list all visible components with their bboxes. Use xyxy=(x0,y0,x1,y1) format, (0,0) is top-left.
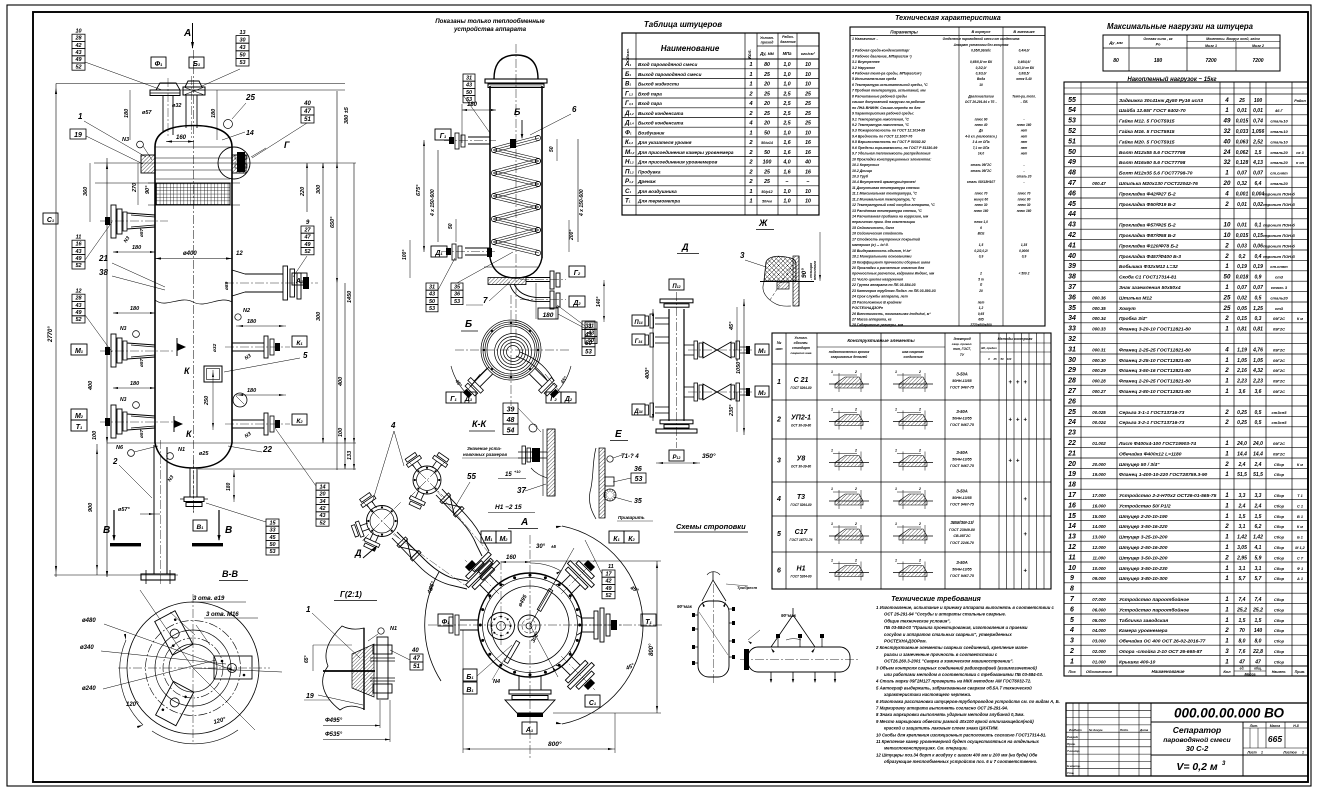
svg-text:2,4: 2,4 xyxy=(1254,462,1262,468)
svg-text:30°: 30° xyxy=(536,544,546,550)
svg-text:Д1: Д1 xyxy=(464,396,473,403)
svg-text:48: 48 xyxy=(506,417,515,424)
svg-text:36: 36 xyxy=(454,292,461,298)
dim 360 left xyxy=(89,163,91,222)
svg-text:35: 35 xyxy=(634,498,642,505)
vessel shell xyxy=(155,126,232,148)
svg-text:9: 9 xyxy=(1070,575,1074,582)
svg-text:Камера уровнемера: Камера уровнемера xyxy=(1119,628,1168,634)
svg-text:Условн.: Условн. xyxy=(760,36,774,40)
svg-text:4: 4 xyxy=(390,421,396,430)
svg-text:К1: К1 xyxy=(296,340,303,347)
svg-text:13 Расчётная температура стенк: 13 Расчётная температура стенки, °С xyxy=(852,209,922,213)
right dim chain 220 300 xyxy=(306,163,308,212)
svg-text:9.5 Взрывоопасность по ГОСТ Р: 9.5 Взрывоопасность по ГОСТ Р 50302-92 xyxy=(852,140,926,144)
svg-text:0,07: 0,07 xyxy=(1237,171,1247,177)
nozzle D1 leaders xyxy=(426,283,438,290)
svg-text:01.000: 01.000 xyxy=(1092,659,1106,664)
svg-text:2: 2 xyxy=(1224,367,1229,374)
svg-text:47: 47 xyxy=(1067,180,1077,187)
svg-text:180: 180 xyxy=(130,306,139,312)
svg-text:Бобышка Ф32хМ12 L=32: Бобышка Ф32хМ12 L=32 xyxy=(1119,263,1178,270)
svg-text:+: + xyxy=(1008,418,1012,424)
svg-text:паронит ПОН-б: паронит ПОН-б xyxy=(1263,254,1295,259)
svg-text:+: + xyxy=(1016,380,1020,386)
svg-text:2,4: 2,4 xyxy=(1254,503,1262,509)
svg-text:Д1: Д1 xyxy=(434,250,443,257)
svg-text:350°: 350° xyxy=(702,452,716,460)
svg-text:1: 1 xyxy=(1225,388,1229,395)
svg-text:000.31: 000.31 xyxy=(1092,347,1106,352)
svg-text:2,52: 2,52 xyxy=(1252,139,1263,145)
svg-text:1: 1 xyxy=(749,199,752,205)
svg-text:нет: нет xyxy=(1021,140,1028,144)
svg-text:28: 28 xyxy=(1067,378,1076,385)
svg-text:2: 2 xyxy=(1069,648,1074,655)
svg-text:55: 55 xyxy=(1068,97,1076,104)
svg-text:1: 1 xyxy=(1225,575,1229,582)
svg-text:сталь 09Г2С: сталь 09Г2С xyxy=(971,163,992,167)
bom header row xyxy=(1064,665,1308,667)
svg-text:ОСТ 36-39-80: ОСТ 36-39-80 xyxy=(791,465,811,469)
svg-text:материал (σ) ₂₀ /σ/: материал (σ) ₂₀ /σ/ д. xyxy=(852,243,889,247)
svg-text:Устройство пароотбойное: Устройство пароотбойное xyxy=(1119,606,1189,613)
svg-text:1: 1 xyxy=(1225,378,1229,385)
svg-text:2: 2 xyxy=(1224,253,1229,260)
svg-text:сталь10: сталь10 xyxy=(1270,129,1288,134)
svg-text:50: 50 xyxy=(585,341,592,347)
svg-text:1: 1 xyxy=(831,522,833,526)
svg-text:21 Число циклов нагружения: 21 Число циклов нагружения xyxy=(851,277,903,281)
nozzle T1 right xyxy=(574,608,622,642)
view A circle xyxy=(478,573,582,677)
svg-text:53: 53 xyxy=(1068,118,1076,125)
svg-text:Ду, мм: Ду, мм xyxy=(759,51,775,56)
nozzle C1 se xyxy=(549,644,607,702)
svg-text:11: 11 xyxy=(76,234,82,240)
svg-text:4 x 150-600: 4 x 150-600 xyxy=(579,189,585,217)
Zh wall strip xyxy=(793,256,799,306)
svg-text:–: – xyxy=(1023,180,1025,184)
svg-text:180: 180 xyxy=(1154,58,1163,64)
svg-text:1,056: 1,056 xyxy=(1252,129,1265,135)
svg-text:3,1: 3,1 xyxy=(1255,566,1262,572)
svg-text:30: 30 xyxy=(1068,357,1076,364)
svg-text:41: 41 xyxy=(1067,242,1076,249)
svg-text:ГОСТ 5264-80: ГОСТ 5264-80 xyxy=(790,575,811,579)
svg-text:Штуцер 3-50-10-200: Штуцер 3-50-10-200 xyxy=(1119,555,1168,561)
svg-text:50НН-13/55: 50НН-13/55 xyxy=(952,568,972,572)
svg-text:Ф1: Ф1 xyxy=(625,129,632,136)
svg-text:665: 665 xyxy=(978,318,984,322)
svg-text:1 Изготовление, испытание и пр: 1 Изготовление, испытание и приемку аппа… xyxy=(876,605,1055,610)
svg-text:26 Вместимость, номинальная /п: 26 Вместимость, номинальная /подъём/, м³ xyxy=(851,312,931,316)
svg-text:Обозн.: Обозн. xyxy=(625,48,630,62)
svg-text:1: 1 xyxy=(1225,357,1229,364)
svg-text:24,0: 24,0 xyxy=(1252,441,1263,447)
svg-text:10: 10 xyxy=(805,189,811,195)
svg-text:180: 180 xyxy=(543,312,554,319)
svg-text:1,42: 1,42 xyxy=(1253,535,1263,541)
svg-text:ø32: ø32 xyxy=(212,343,218,352)
svg-text:1: 1 xyxy=(1261,751,1263,755)
svg-text:Шайба 12.65Г ГОСТ 6402-70: Шайба 12.65Г ГОСТ 6402-70 xyxy=(1119,107,1186,114)
svg-text:10: 10 xyxy=(805,82,811,88)
svg-text:0,3: 0,3 xyxy=(1255,316,1262,322)
svg-text:плюс 70: плюс 70 xyxy=(1018,192,1031,196)
svg-text:Дата: Дата xyxy=(1139,728,1149,732)
svg-text:< 500 2: < 500 2 xyxy=(1019,272,1030,276)
svg-text:140: 140 xyxy=(1254,628,1263,634)
K-K stud xyxy=(518,451,547,453)
svg-text:180: 180 xyxy=(211,109,217,118)
svg-text:К1,2: К1,2 xyxy=(625,139,633,146)
svg-text:Выход конденсата: Выход конденсата xyxy=(638,111,684,116)
svg-text:Ф 1: Ф 1 xyxy=(1297,567,1303,571)
svg-text:43: 43 xyxy=(318,513,325,519)
svg-text:39: 39 xyxy=(507,407,515,414)
svg-text:Ф535°: Ф535° xyxy=(325,732,343,738)
svg-text:0,4: 0,4 xyxy=(1255,254,1262,260)
svg-text:Сбор: Сбор xyxy=(1274,472,1285,477)
svg-text:Наименование: Наименование xyxy=(1152,669,1185,674)
svg-text:50/м14: 50/м14 xyxy=(761,141,773,145)
svg-text:1: 1 xyxy=(749,130,752,136)
svg-text:00.025: 00.025 xyxy=(1092,410,1106,415)
svg-text:6 Изготовка расстановки штуцер: 6 Изготовка расстановки штуцеров-трубопр… xyxy=(876,699,1060,704)
svg-text:20: 20 xyxy=(1067,461,1076,468)
svg-text:0,01: 0,01 xyxy=(1237,223,1247,229)
tech characteristics box xyxy=(850,27,1045,326)
svg-text:14,4: 14,4 xyxy=(1253,451,1263,457)
svg-text:0,01: 0,01 xyxy=(1237,108,1247,114)
svg-text:сталь 08Х18Н10Т: сталь 08Х18Н10Т xyxy=(967,180,996,184)
svg-text:11 Допустимая температура стен: 11 Допустимая температура стенки: xyxy=(852,186,920,190)
svg-text:1: 1 xyxy=(749,189,752,195)
svg-text:300: 300 xyxy=(316,312,322,321)
svg-text:Ро: Ро xyxy=(1156,43,1161,47)
svg-text:50: 50 xyxy=(269,542,275,548)
svg-text:0,4/4,0/: 0,4/4,0/ xyxy=(1019,49,1031,53)
svg-text:180: 180 xyxy=(226,482,232,491)
detail G2-1 flange section xyxy=(352,644,374,697)
svg-text:давление: давление xyxy=(780,40,796,44)
svg-text:Электрод: Электрод xyxy=(953,337,970,341)
svg-text:43: 43 xyxy=(465,83,472,89)
svg-text:50НН-13/55: 50НН-13/55 xyxy=(952,417,972,421)
svg-text:20: 20 xyxy=(763,82,770,88)
svg-text:ø57: ø57 xyxy=(139,228,145,237)
svg-text:7 Пробная температура, испытан: 7 Пробная температура, испытаний, мм xyxy=(852,89,926,93)
svg-text:Общие технические условия",: Общие технические условия", xyxy=(884,618,951,623)
svg-text:В: В xyxy=(103,525,110,536)
svg-text:50: 50 xyxy=(764,130,770,136)
view D top flange xyxy=(660,299,693,303)
svg-text:Штуцер 3-50-10-230: Штуцер 3-50-10-230 xyxy=(1119,566,1168,572)
svg-text:В 1: В 1 xyxy=(1297,515,1303,519)
svg-text:Б: Б xyxy=(514,107,521,117)
svg-text:2,95: 2,95 xyxy=(1236,555,1247,561)
svg-text:000.29: 000.29 xyxy=(1092,368,1106,373)
svg-text:28 Габаритные размеры, мм: 28 Габаритные размеры, мм xyxy=(851,323,903,327)
svg-text:100: 100 xyxy=(92,431,98,440)
svg-text:2: 2 xyxy=(1224,554,1229,561)
svg-text:13.000: 13.000 xyxy=(1092,535,1106,540)
dim 180 top right xyxy=(216,90,218,140)
svg-text:сталь10: сталь10 xyxy=(1270,139,1288,144)
svg-text:Сбор: Сбор xyxy=(1274,545,1285,550)
svg-text:1,0: 1,0 xyxy=(783,62,790,68)
svg-text:ø25: ø25 xyxy=(199,451,209,457)
svg-text:20: 20 xyxy=(763,121,770,127)
svg-text:Техническая характеристика: Техническая характеристика xyxy=(895,15,1001,22)
svg-text:7200: 7200 xyxy=(1205,58,1216,64)
spiral labels xyxy=(446,392,461,403)
E wall xyxy=(589,448,596,519)
svg-text:Сбор: Сбор xyxy=(1274,555,1285,560)
svg-text:ПБ 03-584-03 "Правила проектир: ПБ 03-584-03 "Правила проектирования, из… xyxy=(884,625,1028,630)
svg-text:1: 1 xyxy=(895,487,897,491)
svg-text:50: 50 xyxy=(448,223,454,229)
svg-text:Подп.: Подп. xyxy=(1120,728,1129,732)
svg-text:1,05: 1,05 xyxy=(1237,358,1247,364)
svg-text:37: 37 xyxy=(517,486,526,495)
svg-text:нет: нет xyxy=(1021,129,1028,133)
svg-text:11: 11 xyxy=(1068,554,1075,561)
svg-text:Т1: Т1 xyxy=(76,424,83,431)
svg-text:2,5: 2,5 xyxy=(782,111,790,117)
svg-text:43: 43 xyxy=(74,303,81,309)
svg-text:00.024: 00.024 xyxy=(1092,420,1106,425)
svg-text:2,4: 2,4 xyxy=(1238,462,1246,468)
svg-text:53: 53 xyxy=(239,60,245,66)
svg-text:–: – xyxy=(786,179,789,185)
sight glass circle xyxy=(233,393,247,407)
svg-text:свар. провол.: свар. провол. xyxy=(952,342,973,346)
svg-text:прочностных расчетов, кадровом: прочностных расчетов, кадровом Индекс, м… xyxy=(852,272,935,276)
nozzle M1M2 nw xyxy=(453,548,511,606)
svg-text:паронит ПОН-б: паронит ПОН-б xyxy=(1263,233,1295,238)
svg-text:0,018: 0,018 xyxy=(1236,275,1249,281)
svg-text:38: 38 xyxy=(1068,274,1076,281)
svg-text:0,15: 0,15 xyxy=(1253,233,1263,239)
svg-text:1,0: 1,0 xyxy=(783,82,790,88)
svg-text:В: В xyxy=(225,525,232,536)
svg-text:Для присоединения камеры уровн: Для присоединения камеры уровнемера xyxy=(637,150,734,155)
svg-text:Мизг 1: Мизг 1 xyxy=(1205,44,1217,48)
svg-text:1,5: 1,5 xyxy=(979,243,984,247)
lifting vertical vessel xyxy=(698,601,729,677)
stack 31-50 mid right xyxy=(585,322,597,329)
svg-text:5 Автограф выдержать, забраков: 5 Автограф выдержать, забракованным свар… xyxy=(876,685,1032,690)
svg-text:Аппарат установки без концевая: Аппарат установки без концевая xyxy=(953,43,1009,47)
svg-text:14,4: 14,4 xyxy=(1237,451,1247,457)
svg-text:50НН-13/55: 50НН-13/55 xyxy=(952,496,972,500)
svg-text:133: 133 xyxy=(347,451,353,460)
nozzle K1 right xyxy=(232,342,264,344)
svg-text:25: 25 xyxy=(804,121,811,127)
svg-text:13: 13 xyxy=(1068,534,1076,541)
svg-text:7,4: 7,4 xyxy=(1239,597,1246,603)
svg-text:Значение уста-: Значение уста- xyxy=(467,446,502,451)
svg-text:ст3: ст3 xyxy=(1275,275,1284,280)
svg-text:50НН-13/55: 50НН-13/55 xyxy=(952,458,972,462)
svg-text:49: 49 xyxy=(74,256,82,262)
svg-text:Схемы строповки: Схемы строповки xyxy=(676,522,746,531)
svg-text:Лист: Лист xyxy=(1246,751,1256,755)
V-V lug pad top-left xyxy=(156,681,194,725)
svg-text:Г: Г xyxy=(284,140,290,150)
svg-text:М 1,2: М 1,2 xyxy=(1295,546,1305,550)
bottom leg column xyxy=(153,445,155,574)
baffle plate in bottom dish xyxy=(488,278,526,285)
svg-text:10 Скобы для крепления изоляци: 10 Скобы для крепления изоляционных расп… xyxy=(876,732,1047,737)
svg-text:сталь20: сталь20 xyxy=(1270,150,1288,155)
svg-text:сосудов и аппаратов стальных с: сосудов и аппаратов стальных сварных", у… xyxy=(884,632,1012,637)
svg-text:1050°: 1050° xyxy=(736,359,742,374)
svg-text:5,7: 5,7 xyxy=(1239,576,1246,582)
svg-text:по ЛНА ВНИИН. Свыше-чертёж по: по ЛНА ВНИИН. Свыше-чертёж по для xyxy=(852,106,920,110)
svg-text:000.34: 000.34 xyxy=(1092,316,1106,321)
svg-text:1,0: 1,0 xyxy=(783,189,790,195)
spiral tails xyxy=(520,352,554,381)
svg-text:000.28: 000.28 xyxy=(1092,379,1106,384)
svg-text:48: 48 xyxy=(1067,170,1076,177)
svg-text:Сбор: Сбор xyxy=(1274,535,1285,540)
svg-text:нет: нет xyxy=(1021,134,1028,138)
svg-text:32: 32 xyxy=(1224,159,1231,166)
svg-text:А1: А1 xyxy=(295,278,304,285)
svg-text:40: 40 xyxy=(1223,138,1231,145)
svg-text:20: 20 xyxy=(1223,180,1231,187)
svg-text:43: 43 xyxy=(74,50,81,56)
svg-text:Сбор: Сбор xyxy=(1274,607,1285,612)
title block xyxy=(1066,703,1308,776)
svg-text:31: 31 xyxy=(466,75,472,81)
svg-text:стандарт: стандарт xyxy=(792,346,810,350)
svg-text:2770°: 2770° xyxy=(48,326,54,343)
svg-text:65°: 65° xyxy=(304,654,310,663)
svg-text:23: 23 xyxy=(1067,430,1076,437)
svg-text:1: 1 xyxy=(1225,534,1229,541)
svg-text:52: 52 xyxy=(304,249,310,255)
svg-text:7,6: 7,6 xyxy=(1239,649,1246,655)
svg-text:18.1 Минеральными основаниями: 18.1 Минеральными основаниями xyxy=(852,255,912,259)
svg-text:22,8: 22,8 xyxy=(1252,649,1263,655)
svg-text:№ докум.: № докум. xyxy=(1089,728,1103,732)
svg-text:6 Температура испытательной ср: 6 Температура испытательной среды, °С xyxy=(852,83,928,87)
svg-text:сталь20: сталь20 xyxy=(1270,160,1288,165)
svg-text:плюс 160: плюс 160 xyxy=(1017,209,1032,213)
svg-text:24: 24 xyxy=(1223,149,1231,156)
svg-text:0,2/2,0,2/: 0,2/2,0,2/ xyxy=(974,249,988,253)
dim 270 left xyxy=(137,163,139,205)
svg-text:12 Штуцеры поз.34 борт к возд: 12 Штуцеры поз.34 борт к воздуху с шагом… xyxy=(876,752,1038,757)
svg-text:0,15: 0,15 xyxy=(1237,316,1247,322)
svg-text:0,9: 0,9 xyxy=(1022,255,1027,259)
svg-text:В1: В1 xyxy=(197,524,205,531)
svg-text:сталь20: сталь20 xyxy=(1270,295,1288,300)
svg-text:1: 1 xyxy=(1225,107,1229,114)
svg-text:09Г2С: 09Г2С xyxy=(1273,347,1285,352)
iso valve bowtie 2 xyxy=(397,537,421,561)
svg-text:2: 2 xyxy=(918,487,921,491)
svg-text:43: 43 xyxy=(1067,222,1076,229)
svg-text:43: 43 xyxy=(238,45,245,51)
nozzle G1 mid xyxy=(468,136,490,138)
svg-text:1,6: 1,6 xyxy=(783,140,790,146)
svg-text:19.000: 19.000 xyxy=(1092,472,1106,477)
svg-text:49: 49 xyxy=(74,57,82,63)
svg-text:4,76: 4,76 xyxy=(1252,347,1263,353)
svg-text:7,4: 7,4 xyxy=(1255,597,1262,603)
svg-text:1: 1 xyxy=(1225,440,1229,447)
svg-text:1,5: 1,5 xyxy=(1239,514,1246,520)
svg-text:14: 14 xyxy=(1068,523,1076,530)
svg-text:1: 1 xyxy=(1225,638,1229,645)
svg-text:25: 25 xyxy=(1223,294,1231,301)
svg-text:53: 53 xyxy=(454,299,460,305)
svg-text:7 Маркировку аппарата выполнят: 7 Маркировку аппарата выполнять согласно… xyxy=(876,706,1008,711)
svg-text:0,07: 0,07 xyxy=(1253,285,1263,291)
svg-text:Сбор: Сбор xyxy=(1274,659,1285,664)
detail G balloon xyxy=(218,147,250,179)
svg-text:V= 0,2 м: V= 0,2 м xyxy=(1176,761,1218,773)
svg-text:Т 1: Т 1 xyxy=(1297,494,1303,498)
svg-text:10: 10 xyxy=(1224,222,1231,229)
svg-text:4,32: 4,32 xyxy=(1252,368,1263,374)
svg-text:1: 1 xyxy=(1225,617,1229,624)
svg-text:Воздушник: Воздушник xyxy=(638,130,665,135)
svg-text:М2: М2 xyxy=(758,390,766,397)
svg-text:А: А xyxy=(183,28,191,39)
svg-text:2,5: 2,5 xyxy=(782,101,790,107)
svg-text:6,2: 6,2 xyxy=(1255,524,1262,530)
V-V lug pad right xyxy=(214,656,252,679)
svg-text:Устройство 2-2-Н70х2 ОСТ26-: Устройство 2-2-Н70х2 ОСТ26-01-565-75 xyxy=(1119,492,1217,499)
svg-text:25: 25 xyxy=(992,357,997,361)
svg-text:К1: К1 xyxy=(613,536,620,543)
svg-text:0,06: 0,06 xyxy=(1253,243,1263,249)
svg-text:1: 1 xyxy=(1225,263,1229,270)
svg-text:0,015: 0,015 xyxy=(1236,233,1249,239)
svg-text:ø480: ø480 xyxy=(82,618,96,624)
svg-text:1: 1 xyxy=(777,379,781,386)
svg-text:З-50А: З-50А xyxy=(956,372,968,377)
svg-text:31: 31 xyxy=(1068,346,1076,353)
svg-text:000.33: 000.33 xyxy=(1092,327,1106,332)
svg-text:0,19: 0,19 xyxy=(1237,264,1247,270)
svg-text:25: 25 xyxy=(763,91,770,97)
svg-text:1: 1 xyxy=(1225,471,1229,478)
svg-text:9.3 Пожароопасность по ГОСТ 1: 9.3 Пожароопасность по ГОСТ 12.1014-89 xyxy=(852,129,925,133)
svg-text:С1: С1 xyxy=(589,700,597,707)
svg-text:ед.: ед. xyxy=(1240,667,1245,671)
svg-text:1: 1 xyxy=(1225,450,1229,457)
svg-text:25: 25 xyxy=(1223,305,1231,312)
svg-text:9.1 Температура накопления, °С: 9.1 Температура накопления, °С xyxy=(852,117,909,121)
svg-text:М1: М1 xyxy=(484,536,493,543)
svg-text:Ф495°: Ф495° xyxy=(325,718,343,724)
svg-text:С1: С1 xyxy=(47,217,55,224)
svg-text:1,5: 1,5 xyxy=(1255,150,1262,156)
svg-text:плюс 30: плюс 30 xyxy=(975,203,988,207)
svg-text:ОСТ 36-39-80: ОСТ 36-39-80 xyxy=(791,424,811,428)
svg-text:25: 25 xyxy=(804,91,811,97)
svg-text:10.4 Внутренней арматуры/проч: 10.4 Внутренней арматуры/прочее/ xyxy=(852,180,917,184)
svg-text:+: + xyxy=(1008,380,1012,386)
svg-text:2: 2 xyxy=(112,457,118,466)
